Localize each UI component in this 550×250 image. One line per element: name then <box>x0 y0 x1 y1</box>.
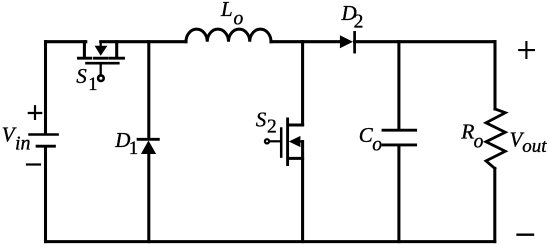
label Ro <box>460 119 483 152</box>
wire D1 branch lower <box>147 154 150 242</box>
svg-text:in: in <box>15 133 31 155</box>
wire bottom <box>46 240 495 243</box>
wire top-left segment <box>46 40 86 43</box>
S1 channel contact bars <box>78 57 123 60</box>
svg-text:o: o <box>234 9 244 30</box>
wire S2 branch upper <box>301 42 304 125</box>
battery Vin short plate <box>37 145 54 148</box>
S2 body arrow <box>289 136 301 147</box>
battery Vin wire upper <box>44 42 47 134</box>
label Vout <box>510 127 548 157</box>
transistor S1 <box>78 42 123 81</box>
S2 channel contact bars <box>286 119 289 165</box>
svg-text:1: 1 <box>129 138 139 159</box>
transistor S2 <box>265 119 303 165</box>
svg-text:o: o <box>474 132 484 153</box>
S1 body arrow <box>95 46 108 56</box>
wire right branch lower <box>493 168 496 241</box>
S2 gate lead <box>270 140 282 142</box>
output plus sign <box>519 42 534 58</box>
diode D2 <box>340 32 355 52</box>
svg-text:out: out <box>522 136 547 157</box>
battery Vin long plate <box>30 133 58 136</box>
S1 gate stub <box>100 64 102 75</box>
inductor Lo <box>186 29 271 42</box>
wire Co branch upper <box>397 42 400 130</box>
S2 source stub <box>288 157 302 160</box>
S2 drain stub <box>288 123 302 126</box>
battery plus sign <box>29 106 41 119</box>
svg-text:S: S <box>76 64 87 88</box>
svg-text:2: 2 <box>267 117 277 138</box>
svg-text:2: 2 <box>354 11 364 32</box>
label Lo <box>220 0 244 30</box>
svg-text:R: R <box>460 119 474 143</box>
wire S2 branch lower <box>301 142 304 242</box>
wire Co branch lower <box>397 145 400 242</box>
wire inductor to D2 <box>271 40 340 43</box>
S1 gate circle <box>98 75 104 81</box>
S2 body arrow connector <box>300 140 303 142</box>
svg-text:L: L <box>220 0 233 21</box>
label D1 <box>114 128 138 159</box>
battery minus sign <box>27 163 40 165</box>
wire right branch upper <box>493 42 496 109</box>
label Vin <box>2 123 31 155</box>
label S1 <box>76 64 97 95</box>
wire D2 to top-right corner <box>355 40 495 43</box>
svg-text:o: o <box>372 134 382 155</box>
S1 source stub <box>115 42 118 57</box>
S2 gate circle <box>265 139 269 143</box>
svg-text:S: S <box>256 108 267 132</box>
diode D1 <box>138 139 158 154</box>
S2 gate bar <box>280 129 283 157</box>
wire top middle (S1 to inductor) <box>101 40 186 43</box>
S1 drain stub <box>83 42 86 57</box>
S1 gate bar <box>87 62 119 65</box>
label S2 <box>256 108 277 138</box>
capacitor Co <box>383 130 416 145</box>
resistor Ro <box>486 109 505 168</box>
S1 body arrow stem <box>100 42 102 46</box>
label D2 <box>341 1 364 32</box>
label Co <box>359 123 383 156</box>
svg-text:1: 1 <box>88 75 97 95</box>
wire D1 branch upper <box>147 42 150 139</box>
output minus sign <box>518 234 534 236</box>
battery Vin wire lower <box>44 148 47 242</box>
